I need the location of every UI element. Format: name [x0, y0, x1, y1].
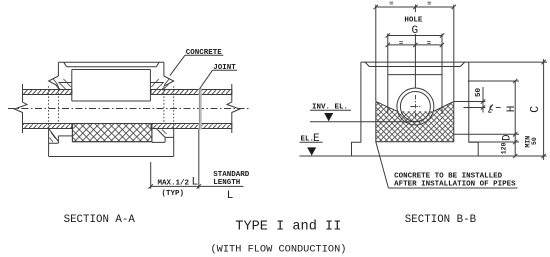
svg-text:H: H	[506, 106, 518, 113]
svg-text:(WITH FLOW CONDUCTION): (WITH FLOW CONDUCTION)	[211, 244, 347, 256]
svg-text:CONCRETE: CONCRETE	[186, 49, 223, 57]
svg-text:INV. EL.: INV. EL.	[312, 104, 348, 112]
svg-text:SECTION A-A: SECTION A-A	[64, 214, 136, 226]
svg-text:E: E	[313, 133, 320, 145]
svg-text:CONCRETE TO BE INSTALLED: CONCRETE TO BE INSTALLED	[394, 172, 503, 180]
svg-text:MAX.1/2: MAX.1/2	[158, 179, 190, 187]
svg-text:(TYP): (TYP)	[162, 190, 185, 198]
svg-text:STANDARD: STANDARD	[213, 171, 250, 179]
svg-text:SECTION B-B: SECTION B-B	[405, 214, 477, 226]
svg-text:L: L	[192, 176, 199, 188]
svg-text:AFTER INSTALLATION OF PIPES: AFTER INSTALLATION OF PIPES	[394, 180, 516, 188]
svg-text:TYPE I and II: TYPE I and II	[235, 219, 341, 234]
svg-text:HOLE: HOLE	[404, 17, 423, 25]
svg-text:120: 120	[501, 142, 508, 154]
svg-text:EL.: EL.	[301, 136, 315, 144]
svg-text:D: D	[502, 134, 514, 141]
svg-text:C: C	[529, 106, 542, 113]
svg-text:JOINT: JOINT	[213, 64, 236, 72]
svg-text:G: G	[412, 25, 419, 37]
svg-text:50: 50	[475, 87, 483, 97]
svg-text:LENGTH: LENGTH	[213, 179, 240, 187]
svg-text:L: L	[227, 190, 234, 202]
svg-text:50: 50	[531, 137, 538, 145]
